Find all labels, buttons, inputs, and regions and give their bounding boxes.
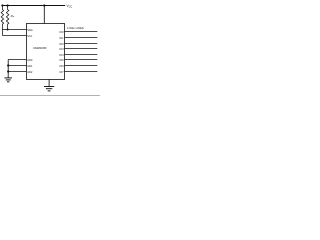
wire: VCC drop to chip [43, 6, 45, 24]
wire: GND pin drop [48, 80, 50, 87]
svg-text:SCL: SCL [27, 34, 33, 38]
ground: AD pins ground symbol [4, 78, 12, 82]
node: AD1 junction [7, 64, 9, 66]
wire IO0 [65, 31, 98, 33]
svg-text:AD1: AD1 [27, 64, 33, 68]
svg-text:IO6: IO6 [59, 64, 64, 68]
wire: figure bottom rule [0, 95, 100, 97]
wire IO7 [65, 71, 98, 73]
resistor RP2 [6, 6, 8, 30]
svg-text:IO0: IO0 [59, 30, 64, 34]
op-amp U1: DS2482-800 chip body [27, 24, 65, 80]
wire: SCL net [2, 35, 26, 37]
svg-text:IO7: IO7 [59, 70, 64, 74]
wire IO4 [65, 54, 98, 56]
node: AD2 junction [7, 70, 9, 72]
wire IO3 [65, 48, 98, 50]
svg-text:RP: RP [11, 14, 15, 19]
svg-text:AD0: AD0 [27, 58, 33, 62]
wire IO1 [65, 37, 98, 39]
svg-text:DS2482-800: DS2482-800 [33, 46, 47, 50]
svg-text:SDA: SDA [27, 28, 33, 32]
wire: AD bus vertical [7, 60, 9, 78]
wire: SDA net [2, 29, 26, 31]
node: junction SDA/R2 [7, 29, 9, 31]
ground: GND pin ground symbol [44, 87, 54, 91]
wire IO5 [65, 59, 98, 61]
wire: AD0 stub [8, 59, 26, 61]
node: rail junction at R1 [1, 4, 3, 6]
node: rail junction at R2 [7, 4, 9, 6]
svg-text:AD2: AD2 [27, 70, 33, 74]
node: rail junction at VCC drop [43, 4, 45, 6]
svg-text:VCC: VCC [67, 4, 73, 9]
resistor RP1 [1, 6, 3, 36]
svg-text:IO4: IO4 [59, 53, 64, 57]
wire: AD1 stub [8, 65, 26, 67]
wire IO6 [65, 65, 98, 67]
svg-text:IO2: IO2 [59, 42, 64, 46]
svg-text:1-Wire LINES: 1-Wire LINES [67, 26, 84, 30]
wire: AD2 stub [8, 71, 26, 73]
wire IO2 [65, 43, 98, 45]
svg-text:IO3: IO3 [59, 47, 64, 51]
svg-text:IO5: IO5 [59, 58, 64, 62]
wire: VCC top rail [2, 5, 65, 7]
svg-text:IO1: IO1 [59, 36, 64, 40]
